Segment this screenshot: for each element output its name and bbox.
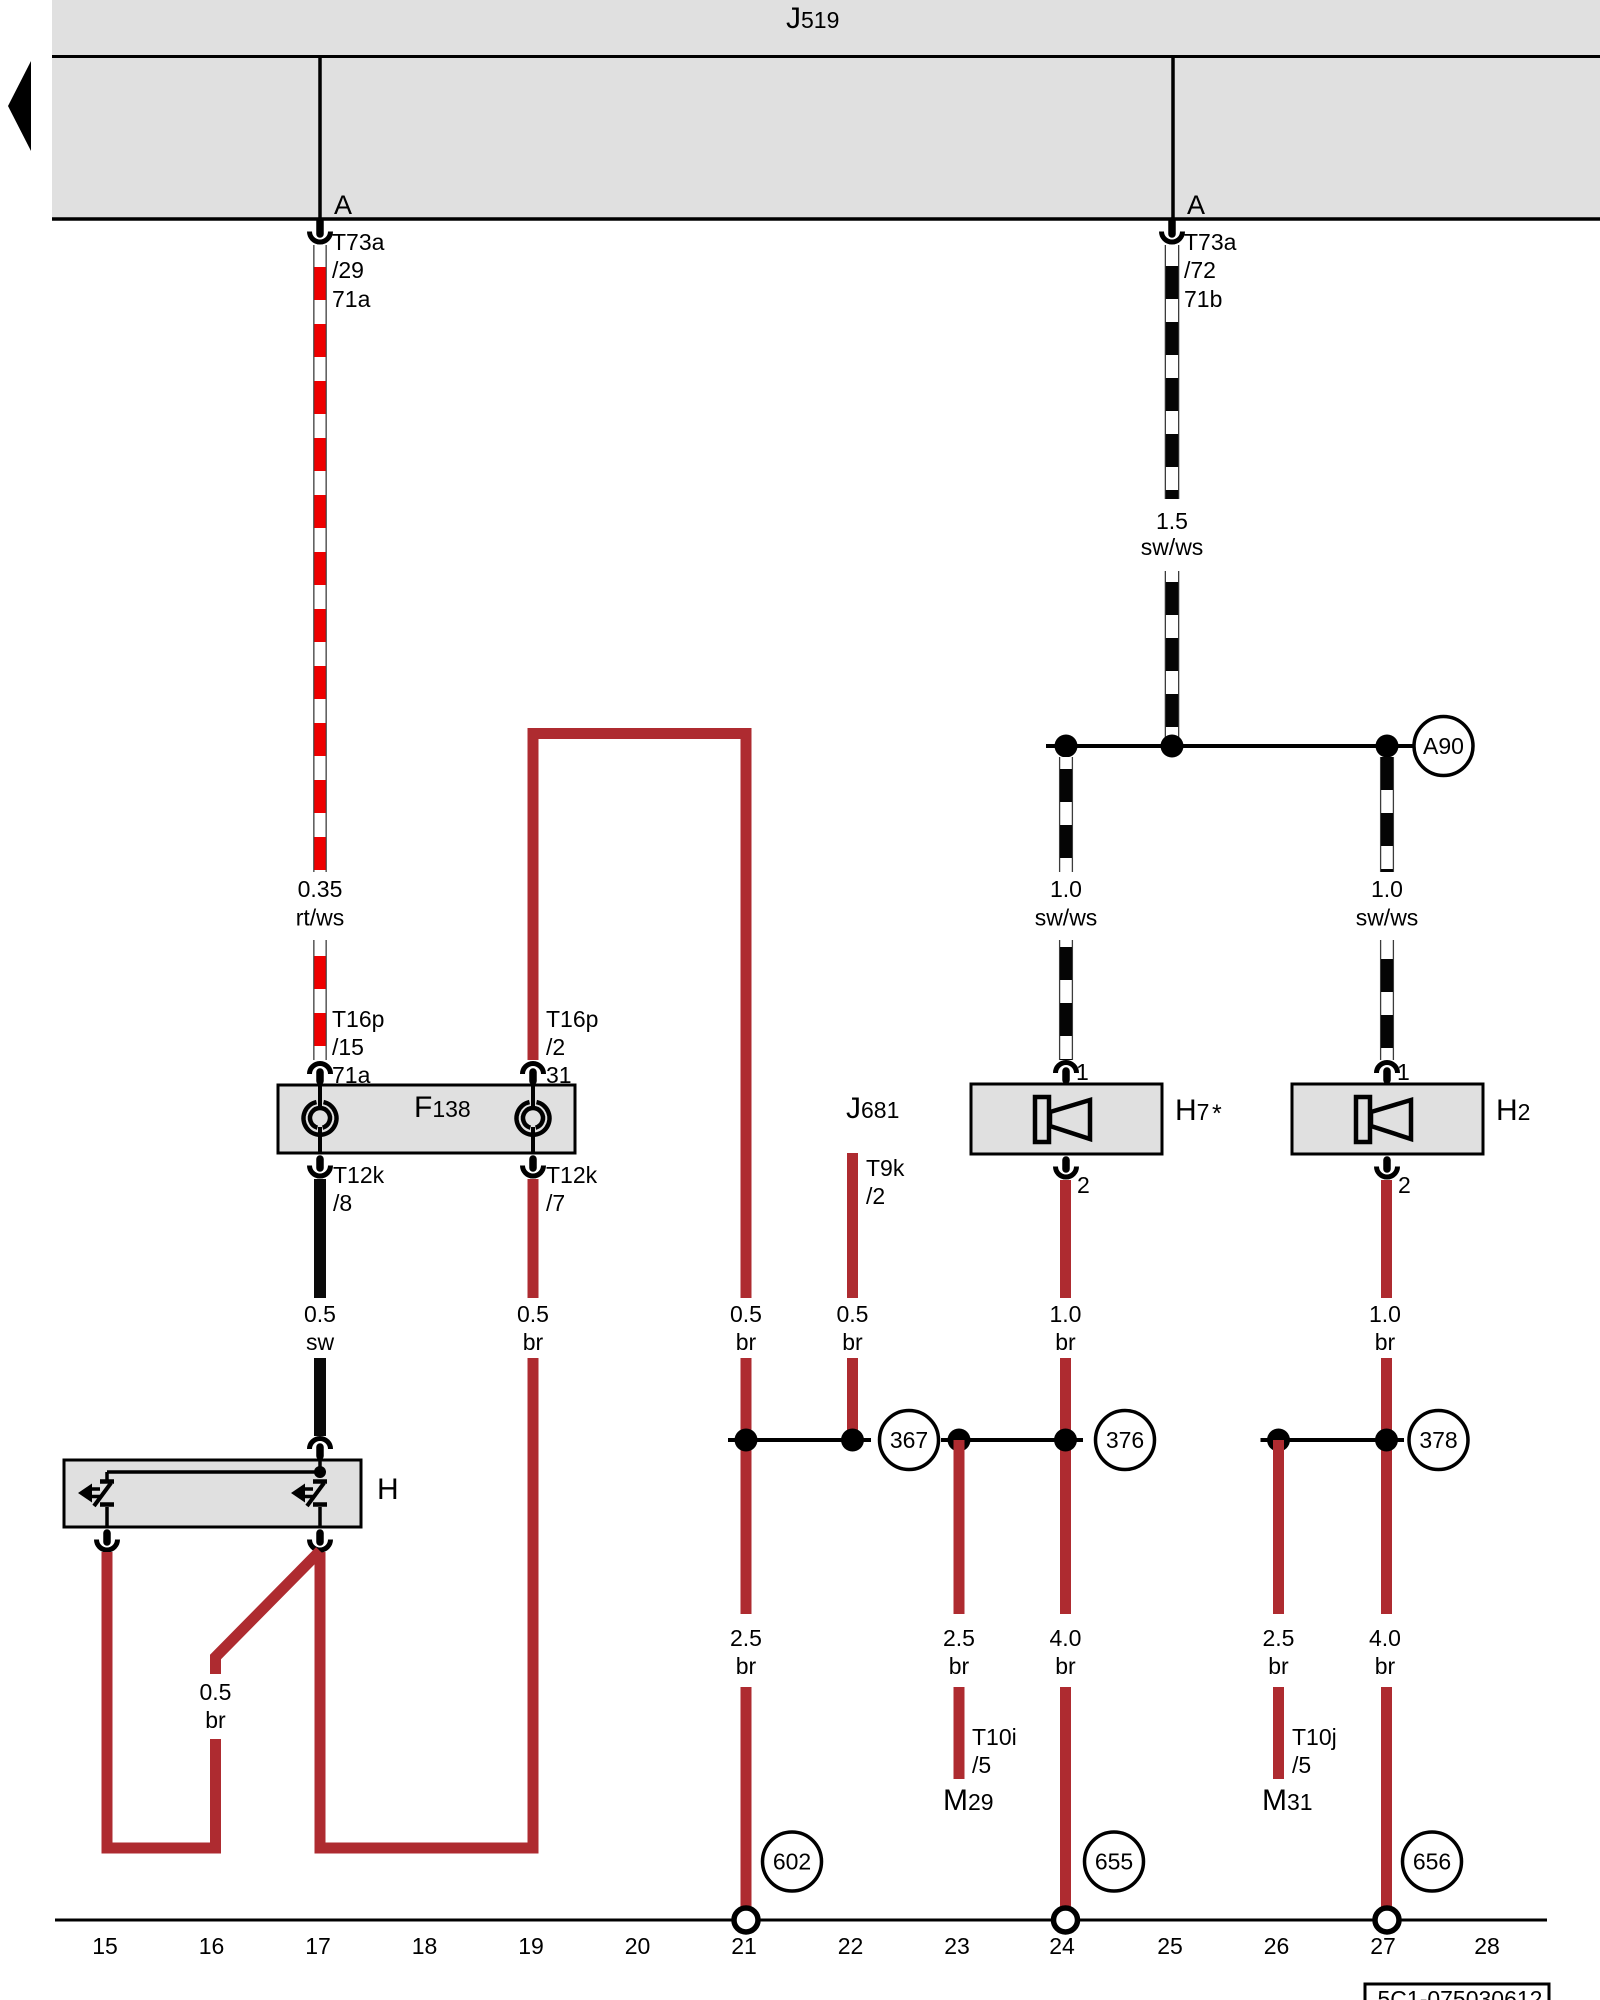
component H box	[64, 1460, 361, 1527]
svg-text:1: 1	[1076, 1059, 1089, 1085]
svg-text:/15: /15	[332, 1034, 364, 1060]
svg-text:367: 367	[890, 1427, 928, 1453]
H7 horn symbol	[1035, 1097, 1090, 1142]
svg-text:27: 27	[1370, 1933, 1396, 1959]
svg-text:17: 17	[305, 1933, 331, 1959]
svg-text:26: 26	[1264, 1933, 1290, 1959]
wire 1.0 br H7 mid segment	[1060, 1358, 1071, 1614]
svg-text:T12k: T12k	[333, 1162, 385, 1188]
svg-text:22: 22	[838, 1933, 864, 1959]
wire br horizontal overpass	[528, 728, 752, 739]
wire 0.5 br from T12k/7 upper segment	[528, 1179, 539, 1298]
junction dot col24	[1054, 1429, 1077, 1452]
junction dot col21	[735, 1429, 758, 1452]
continuation arrow left	[8, 61, 31, 151]
svg-text:M29: M29	[943, 1784, 994, 1817]
svg-text:23: 23	[944, 1933, 970, 1959]
svg-text:376: 376	[1106, 1427, 1144, 1453]
wire br down column 21 segment 2	[741, 1358, 752, 1614]
svg-text:sw/ws: sw/ws	[1035, 905, 1098, 931]
svg-text:15: 15	[92, 1933, 118, 1959]
ground symbol col 27	[1375, 1908, 1399, 1932]
wire 2.5 br col23 upper segment	[954, 1440, 965, 1614]
wire rt/ws upper segment	[313, 245, 327, 872]
wire into H top pin	[310, 1439, 331, 1457]
junction line 376	[941, 1438, 1083, 1442]
junction circle 367	[880, 1411, 939, 1470]
svg-text:A90: A90	[1423, 733, 1464, 759]
wire 1.5 sw/ws lower segment	[1165, 571, 1180, 746]
H7 pin 1 connector	[1056, 1063, 1077, 1081]
ground circle 656	[1403, 1832, 1462, 1891]
svg-text:T9k: T9k	[866, 1155, 905, 1181]
junction line A90	[1046, 744, 1414, 748]
wire T9k stub upper segment	[847, 1153, 858, 1298]
svg-text:/29: /29	[332, 257, 364, 283]
ground circle 602	[763, 1832, 822, 1891]
svg-text:br: br	[1268, 1653, 1289, 1679]
wire br down column 21 segment 3 to ground	[741, 1687, 752, 1909]
svg-text:4.0: 4.0	[1369, 1625, 1401, 1651]
svg-text:T12k: T12k	[546, 1162, 598, 1188]
svg-text:21: 21	[731, 1933, 757, 1959]
svg-text:br: br	[949, 1653, 970, 1679]
svg-text:18: 18	[412, 1933, 438, 1959]
wire 1.5 sw/ws upper segment	[1165, 245, 1180, 499]
svg-text:602: 602	[773, 1849, 811, 1875]
H2 pin 2 connector	[1377, 1160, 1398, 1177]
wire 0.5 br from T12k/7 lower segment	[528, 1358, 539, 1848]
svg-text:br: br	[523, 1329, 544, 1355]
junction dot col27	[1375, 1429, 1398, 1452]
svg-text:/2: /2	[546, 1034, 565, 1060]
svg-text:br: br	[205, 1707, 226, 1733]
pin T16p/2 connector	[523, 1064, 544, 1082]
H2 horn symbol	[1356, 1097, 1411, 1142]
svg-text:2: 2	[1077, 1172, 1090, 1198]
svg-text:20: 20	[625, 1933, 651, 1959]
svg-text:T16p: T16p	[546, 1006, 598, 1032]
junction line 378	[1261, 1438, 1405, 1442]
svg-text:2: 2	[1398, 1172, 1411, 1198]
svg-text:19: 19	[518, 1933, 544, 1959]
wire br diagonal to H right pin	[216, 1551, 321, 1674]
H right bottom pin	[310, 1533, 331, 1550]
junction circle A90	[1414, 717, 1473, 776]
svg-text:1.0: 1.0	[1369, 1301, 1401, 1327]
svg-text:H7: H7	[1175, 1094, 1209, 1127]
svg-text:5C1-075030612: 5C1-075030612	[1378, 1986, 1543, 2000]
ground symbol col 24	[1054, 1908, 1078, 1932]
svg-text:sw/ws: sw/ws	[1356, 905, 1419, 931]
svg-text:A: A	[1187, 190, 1205, 220]
H left sounder element	[78, 1472, 114, 1527]
svg-text:378: 378	[1419, 1427, 1457, 1453]
svg-text:br: br	[1375, 1329, 1396, 1355]
svg-text:0.5: 0.5	[304, 1301, 336, 1327]
svg-text:/2: /2	[866, 1183, 885, 1209]
svg-text:br: br	[736, 1329, 757, 1355]
svg-text:1.0: 1.0	[1050, 1301, 1082, 1327]
svg-text:T10i: T10i	[972, 1724, 1017, 1750]
svg-text:0.5: 0.5	[837, 1301, 869, 1327]
wire 1.0 br H2 upper segment	[1381, 1180, 1392, 1298]
svg-text:/72: /72	[1184, 257, 1216, 283]
junction circle 376	[1096, 1411, 1155, 1470]
wire 4.0 br to ground 655	[1060, 1687, 1071, 1909]
H right sounder element	[291, 1482, 327, 1528]
pin T12k/8 connector	[310, 1159, 331, 1176]
ground symbol col 21	[734, 1908, 758, 1932]
junction circle 378	[1409, 1411, 1468, 1470]
svg-text:sw: sw	[306, 1329, 335, 1355]
svg-text:M31: M31	[1262, 1784, 1313, 1817]
junction dot col25 top	[1161, 735, 1184, 758]
wire 0.5 sw upper segment	[314, 1179, 326, 1298]
svg-text:/8: /8	[333, 1190, 352, 1216]
ground circle 655	[1085, 1832, 1144, 1891]
svg-text:/5: /5	[1292, 1752, 1311, 1778]
wire 1.0 sw/ws left lower segment	[1059, 940, 1073, 1060]
svg-text:1.0: 1.0	[1371, 876, 1403, 902]
H2 pin 1 connector	[1377, 1063, 1398, 1081]
wire br from H left pin down	[102, 1552, 113, 1854]
control unit J519 box	[52, 0, 1600, 219]
svg-text:rt/ws: rt/ws	[296, 905, 345, 931]
svg-text:2.5: 2.5	[943, 1625, 975, 1651]
H7 pin 2 connector	[1056, 1160, 1077, 1177]
wire 2.5 br col26 upper segment	[1273, 1440, 1284, 1614]
svg-text:71b: 71b	[1184, 286, 1222, 312]
svg-text:F138: F138	[414, 1091, 471, 1124]
wire 0.5 sw lower segment	[314, 1358, 326, 1436]
H left bottom pin	[97, 1533, 118, 1550]
svg-text:0.5: 0.5	[200, 1679, 232, 1705]
svg-text:sw/ws: sw/ws	[1141, 534, 1204, 560]
svg-text:0.5: 0.5	[730, 1301, 762, 1327]
H internal wiring	[107, 1455, 326, 1478]
svg-text:24: 24	[1049, 1933, 1075, 1959]
svg-text:T10j: T10j	[1292, 1724, 1337, 1750]
svg-text:br: br	[842, 1329, 863, 1355]
svg-text:1.5: 1.5	[1156, 508, 1188, 534]
svg-text:25: 25	[1157, 1933, 1183, 1959]
svg-text:28: 28	[1474, 1933, 1500, 1959]
svg-text:71a: 71a	[332, 286, 371, 312]
svg-text:H: H	[377, 1473, 399, 1506]
svg-text:0.5: 0.5	[517, 1301, 549, 1327]
svg-text:br: br	[736, 1653, 757, 1679]
wire br down column 21 segment 1	[741, 733, 752, 1298]
svg-text:655: 655	[1095, 1849, 1133, 1875]
svg-text:br: br	[1375, 1653, 1396, 1679]
wire 2.5 br col26 stub	[1273, 1687, 1284, 1779]
svg-text:/5: /5	[972, 1752, 991, 1778]
wire 4.0 br to ground 656	[1381, 1687, 1392, 1909]
svg-text:H2: H2	[1496, 1094, 1530, 1127]
svg-text:J681: J681	[846, 1092, 899, 1125]
svg-text:br: br	[1055, 1653, 1076, 1679]
component H2 box	[1292, 1084, 1483, 1154]
wire T9k stub lower segment	[847, 1358, 858, 1440]
junction line 367	[728, 1438, 871, 1442]
wire 1.0 br H2 mid segment	[1381, 1358, 1392, 1614]
svg-text:0.35: 0.35	[298, 876, 343, 902]
component H7 box	[971, 1084, 1162, 1154]
wire 2.5 br col23 stub	[954, 1687, 965, 1779]
F138 left coil symbol	[304, 1085, 337, 1153]
bottom rail line	[55, 1919, 1547, 1922]
J519 internal pin line A (right)	[1171, 57, 1175, 219]
connector T73a/72 pin	[1162, 221, 1183, 242]
wire 1.0 sw/ws right lower segment	[1380, 940, 1394, 1060]
wire 1.0 sw/ws left upper segment	[1059, 757, 1073, 872]
svg-text:J519: J519	[786, 2, 839, 35]
svg-text:1: 1	[1397, 1059, 1410, 1085]
connector T73a/29 pin	[310, 221, 331, 242]
J519 internal pin line A (left)	[318, 57, 322, 219]
svg-text:br: br	[1055, 1329, 1076, 1355]
junction dot col22	[841, 1429, 864, 1452]
junction dot col26	[1267, 1429, 1290, 1452]
pin T12k/7 connector	[523, 1159, 544, 1176]
wire br bottom horizontal right	[315, 1843, 539, 1854]
svg-text:A: A	[334, 190, 352, 220]
component F138 box	[278, 1085, 575, 1153]
svg-text:T16p: T16p	[332, 1006, 384, 1032]
wire rt/ws lower segment	[313, 940, 327, 1060]
svg-text:2.5: 2.5	[1263, 1625, 1295, 1651]
wire br bottom horizontal left	[102, 1843, 222, 1854]
wire 1.0 br H7 upper segment	[1060, 1180, 1071, 1298]
junction dot col27 top	[1376, 735, 1399, 758]
pin T16p/15 connector	[310, 1064, 331, 1082]
svg-text:1.0: 1.0	[1050, 876, 1082, 902]
svg-text:2.5: 2.5	[730, 1625, 762, 1651]
svg-text:T73a: T73a	[1184, 229, 1237, 255]
wire 0.5 br from T16p/2 upper segment	[528, 739, 539, 1060]
F138 right coil symbol	[517, 1085, 550, 1153]
junction dot col24 top	[1055, 735, 1078, 758]
svg-text:/7: /7	[546, 1190, 565, 1216]
wire br vertical from H right pin	[315, 1552, 326, 1848]
wire 1.0 sw/ws right upper segment	[1380, 757, 1394, 872]
svg-text:4.0: 4.0	[1050, 1625, 1082, 1651]
svg-text:*: *	[1212, 1100, 1222, 1128]
part number box 5C1-075030612	[1365, 1984, 1549, 2000]
junction dot col23	[948, 1429, 971, 1452]
svg-text:656: 656	[1413, 1849, 1451, 1875]
svg-text:T73a: T73a	[332, 229, 385, 255]
svg-text:16: 16	[199, 1933, 225, 1959]
wire br stub up from horizontal	[210, 1739, 221, 1848]
